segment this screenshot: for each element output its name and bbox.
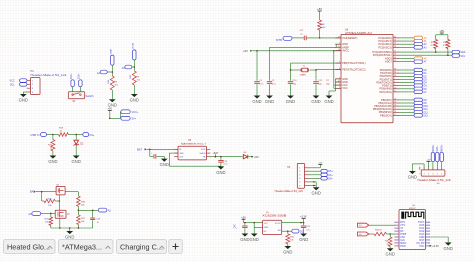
resistor R30 1k (RX pulldown) xyxy=(385,234,392,248)
svg-text:PC5(ADC5/SCL): PC5(ADC5/SCL) xyxy=(373,53,392,57)
ground below C25 xyxy=(299,234,308,242)
svg-text:19: 19 xyxy=(394,57,396,59)
svg-text:GND: GND xyxy=(48,159,57,164)
svg-text:8: 8 xyxy=(339,68,340,70)
junction C14 node xyxy=(220,156,222,158)
net label D11 (PB3) xyxy=(399,107,429,111)
svg-text:22: 22 xyxy=(394,60,396,62)
output capacitor C14 4.7u xyxy=(218,157,228,167)
net label A4 xyxy=(97,70,112,75)
diode D4 (series, output) xyxy=(243,152,251,159)
svg-text:GND: GND xyxy=(216,170,225,175)
svg-text:ADC7: ADC7 xyxy=(385,60,392,64)
net label MOSI (vertical) xyxy=(440,144,444,162)
svg-text:3: 3 xyxy=(299,175,300,177)
svg-text:+5V: +5V xyxy=(254,155,259,159)
svg-text:D10+: D10+ xyxy=(71,73,73,79)
net label D13 (PB5) xyxy=(399,114,429,118)
svg-text:32: 32 xyxy=(394,75,396,77)
junction VCC drop xyxy=(333,50,335,52)
svg-text:5: 5 xyxy=(339,77,340,79)
svg-text:10: 10 xyxy=(394,87,396,89)
svg-text:17: 17 xyxy=(394,114,396,116)
tab Heated Glo... xyxy=(4,240,56,254)
net label D4 (switch right, vertical) xyxy=(79,73,83,87)
capacitor C2 22p label xyxy=(326,80,330,85)
junction SCL-R16 xyxy=(447,54,449,56)
ground below U3 GND xyxy=(250,234,259,242)
svg-text:GND: GND xyxy=(250,237,259,242)
ground below R30 xyxy=(386,248,395,256)
svg-text:4: 4 xyxy=(299,178,300,180)
svg-text:D/TR: D/TR xyxy=(276,38,282,42)
resistor R21 10k (EN pulldown) xyxy=(286,231,295,246)
svg-text:D12: D12 xyxy=(424,112,429,114)
wire R24 to ground xyxy=(111,90,113,99)
power flag +5V (feeds VCC+/5V+ labels) xyxy=(108,108,113,119)
net label D5+ xyxy=(321,170,333,174)
net label VBAT (vertical, top of A4 divider) xyxy=(110,48,114,65)
net label A2 (divider) xyxy=(98,208,111,212)
svg-text:7: 7 xyxy=(339,62,340,64)
net label A7 (ADC7) xyxy=(399,60,428,64)
wire mid to A2 label xyxy=(78,210,98,212)
svg-text:SCL: SCL xyxy=(10,83,15,86)
net label BAT (load switch) xyxy=(30,191,36,194)
transistor Q2 (N-MOSFET) xyxy=(55,210,70,218)
wire U6 GND pin xyxy=(169,153,178,166)
svg-text:SDA: SDA xyxy=(460,51,465,54)
svg-text:5: 5 xyxy=(299,182,300,184)
net label A3 (gate input) xyxy=(28,212,40,216)
svg-text:GND: GND xyxy=(252,99,261,104)
power flag +3.3V (ESP VCC) xyxy=(430,245,439,248)
svg-text:MOSI+: MOSI+ xyxy=(442,144,444,152)
svg-text:GND: GND xyxy=(386,252,395,257)
crystal Y1 16MHz xyxy=(291,65,317,76)
node A4 junction xyxy=(112,71,114,73)
wire A3 to Q2 gate xyxy=(41,213,55,215)
svg-text:+5V: +5V xyxy=(108,108,113,111)
svg-text:GND: GND xyxy=(299,237,308,242)
net label A3 (PC3) xyxy=(399,46,428,50)
svg-text:GND: GND xyxy=(286,99,295,104)
wire VUSB down xyxy=(133,60,135,71)
ground below C11 xyxy=(311,96,320,104)
ground below D2 xyxy=(72,156,81,164)
net label SCL xyxy=(452,54,466,58)
ground below C5 xyxy=(265,96,274,104)
svg-text:30: 30 xyxy=(394,69,396,71)
wire switch left xyxy=(72,87,74,92)
wire U6 OUT to diode xyxy=(210,156,243,158)
wire R19 to D1+ xyxy=(68,134,83,136)
svg-text:*ATMega3...: *ATMega3... xyxy=(62,243,102,252)
svg-text:VCC+: VCC+ xyxy=(132,111,139,114)
ground below R21 xyxy=(283,246,292,254)
svg-text:28: 28 xyxy=(394,54,396,56)
junction crystal-right xyxy=(315,69,317,71)
svg-text:31: 31 xyxy=(394,72,396,74)
svg-text:GND: GND xyxy=(65,234,74,239)
svg-text:3: 3 xyxy=(32,88,33,90)
svg-text:5V+: 5V+ xyxy=(132,118,137,121)
svg-text:4.7u: 4.7u xyxy=(259,83,263,85)
svg-text:GND: GND xyxy=(311,99,320,104)
svg-text:+3.3V: +3.3V xyxy=(300,216,307,219)
svg-text:24: 24 xyxy=(394,40,396,42)
svg-text:D16+: D16+ xyxy=(79,73,81,79)
net label D10 (PB2) xyxy=(399,104,429,108)
ground rail (load switch) xyxy=(51,227,93,229)
wire pullup top bar xyxy=(436,34,448,36)
junction BAT node xyxy=(149,149,151,151)
net label D1+ xyxy=(83,133,95,138)
wire H1 pin6 xyxy=(441,162,443,167)
wire Q1 to Q2 xyxy=(58,195,60,210)
wire VBAT down xyxy=(111,65,113,76)
svg-text:GND: GND xyxy=(444,246,453,251)
ground below rail xyxy=(65,228,74,239)
svg-text:GND: GND xyxy=(283,249,292,254)
svg-text:POK: POK xyxy=(201,149,206,151)
wire H1 pin2 to ground xyxy=(412,164,424,171)
net label D6+ xyxy=(321,173,333,177)
svg-text:GND: GND xyxy=(179,153,184,155)
svg-text:PC6(RESET): PC6(RESET) xyxy=(342,36,357,40)
wire U3 GND pin to ground xyxy=(254,223,262,234)
regulator U6 MAX8881EUT50+T xyxy=(174,139,210,160)
junction SDA-R15 xyxy=(435,51,437,53)
svg-text:D10: D10 xyxy=(424,106,429,108)
svg-text:2: 2 xyxy=(394,81,395,83)
connector H1 Header-Male-2.54_1x6 (horizontal) xyxy=(418,167,452,186)
ground below C4 xyxy=(252,96,261,104)
net label MISO (vertical) xyxy=(431,144,435,162)
wire ESP GND xyxy=(430,237,449,243)
svg-text:6: 6 xyxy=(299,185,300,187)
svg-text:GND: GND xyxy=(160,162,169,167)
net label SDA xyxy=(452,50,466,54)
svg-text:R33 1k: R33 1k xyxy=(375,229,383,231)
regulator U3 XC6206-330B xyxy=(262,212,287,234)
net label D9 (PB1) xyxy=(399,101,428,105)
svg-text:ATMEGA328P-AU: ATMEGA328P-AU xyxy=(345,32,372,35)
wire +5V to labels xyxy=(109,112,120,119)
wire +5V rail to AVCC xyxy=(252,50,341,52)
wire R17 to rail xyxy=(77,225,79,229)
svg-text:26: 26 xyxy=(394,46,396,48)
wire switch right xyxy=(79,87,81,92)
svg-text:5: 5 xyxy=(437,173,438,175)
wire R33 to ESP xyxy=(386,233,394,235)
svg-text:Header-Male-2.54_1x6: Header-Male-2.54_1x6 xyxy=(275,190,304,193)
svg-text:2: 2 xyxy=(424,173,425,175)
svg-text:14: 14 xyxy=(394,105,396,107)
wire H1 pin5 xyxy=(436,162,438,167)
wire H2 pin2 xyxy=(309,170,321,172)
junction U3 gnd drop xyxy=(253,222,255,224)
net label A2 (PC2) xyxy=(399,42,428,46)
svg-text:PB5(SCK): PB5(SCK) xyxy=(380,113,392,117)
net label D8 (PB0) xyxy=(399,98,428,102)
net label 5V+ xyxy=(121,116,137,120)
net label A5 xyxy=(122,65,135,70)
svg-text:27: 27 xyxy=(394,51,396,53)
svg-text:BAT: BAT xyxy=(137,147,142,151)
svg-text:SHDN: SHDN xyxy=(200,153,206,155)
svg-text:D5+: D5+ xyxy=(328,170,333,173)
ground at U6 input xyxy=(160,159,169,167)
svg-text:4: 4 xyxy=(32,92,33,94)
svg-text:23: 23 xyxy=(394,36,396,38)
wire H1 pin4 xyxy=(432,162,434,167)
net flag +BAT xyxy=(213,152,219,157)
transistor Q1 (P-MOSFET) xyxy=(56,185,65,195)
net label A6 (ADC6) xyxy=(399,57,428,61)
svg-text:GND: GND xyxy=(130,97,139,102)
wire SDA xyxy=(399,51,453,53)
net label A1 (PC1) xyxy=(399,39,428,43)
microcontroller U5 ATMEGA328P-AU xyxy=(335,29,399,123)
wire H2 pin4 xyxy=(309,177,321,179)
resistor R15 4.7k xyxy=(431,35,438,52)
net label D/TR xyxy=(276,36,292,42)
svg-text:AVCC: AVCC xyxy=(342,48,349,52)
resistor R29 10k (gate pulldown) xyxy=(45,213,53,228)
svg-text:29: 29 xyxy=(338,36,340,38)
ground below H2 xyxy=(312,187,321,195)
resistor R17 20k (divider bottom) xyxy=(77,215,86,225)
resistor R26 10k (gate pullup) xyxy=(42,192,56,207)
wire VCC drop vertical xyxy=(334,51,341,89)
tab Charging C... xyxy=(117,240,167,254)
resistor R16 4.7k xyxy=(443,35,450,55)
svg-text:GND: GND xyxy=(240,237,249,242)
resistor R33 1k (series RX) xyxy=(374,229,386,235)
svg-text:D1+: D1+ xyxy=(90,134,95,137)
svg-text:1: 1 xyxy=(419,173,420,175)
wire AREF rail xyxy=(270,44,342,47)
svg-text:3: 3 xyxy=(428,173,429,175)
junction C4 column xyxy=(256,50,258,52)
svg-text:21: 21 xyxy=(338,81,340,83)
net label D7 (PD7) xyxy=(399,90,428,94)
port flag ESP CTS (arrow) xyxy=(358,223,369,227)
net label D4 (PD4) xyxy=(399,81,428,85)
power flag +5V (H1 pin3) xyxy=(427,160,432,168)
wire XTAL1 to C10 xyxy=(291,62,342,64)
net label SCL (H3 pin2) xyxy=(10,83,27,87)
svg-text:18: 18 xyxy=(338,49,340,51)
capacitor C11 22p xyxy=(313,69,322,95)
svg-text:MAX8881EUT50+T: MAX8881EUT50+T xyxy=(181,143,207,146)
power flag +5V (I2C pullups) xyxy=(440,30,445,35)
wire loop under U6 (FB) xyxy=(169,165,221,167)
power flag +3.3V xyxy=(300,216,307,223)
svg-text:OUT: OUT xyxy=(179,157,184,159)
capacitor C10 22p xyxy=(288,63,298,95)
svg-text:D13: D13 xyxy=(424,115,429,117)
svg-text:Heated Glo...: Heated Glo... xyxy=(7,243,50,252)
svg-text:VCC: VCC xyxy=(342,86,348,90)
wire CTS to ESP xyxy=(369,224,395,226)
svg-text:1: 1 xyxy=(299,168,300,170)
svg-text:6: 6 xyxy=(441,173,442,175)
svg-text:1: 1 xyxy=(32,80,33,82)
svg-text:16MHz: 16MHz xyxy=(300,74,307,76)
capacitor C26 1u xyxy=(90,210,101,228)
svg-text:GND: GND xyxy=(19,97,28,102)
svg-text:13: 13 xyxy=(394,102,396,104)
resistor R36 62k (divider top) xyxy=(77,196,86,206)
ground below H3 xyxy=(19,94,28,102)
wire SCL xyxy=(399,54,453,56)
ground right of ESP xyxy=(444,243,453,251)
svg-text:Header-Male-2.54_1x4: Header-Male-2.54_1x4 xyxy=(31,74,68,77)
zener diode D2 xyxy=(74,135,84,156)
svg-text:SCK+: SCK+ xyxy=(437,145,439,152)
svg-text:NC: NC xyxy=(264,231,268,233)
ground below R25 xyxy=(130,94,139,102)
power flag +5V (main rail) xyxy=(243,49,252,53)
svg-text:D9+: D9+ xyxy=(328,177,333,180)
net label D1 (PD1) xyxy=(399,71,428,75)
svg-text:PB6(XTAL1/TOSC1): PB6(XTAL1/TOSC1) xyxy=(342,61,365,65)
svg-text:Switch: Switch xyxy=(86,94,94,98)
svg-text:VUSB: VUSB xyxy=(133,43,135,49)
power flag +5V (H2) xyxy=(318,163,323,165)
tab *ATMega3... (active) xyxy=(59,240,114,254)
wire USB Tx to R19 xyxy=(47,134,59,136)
net label A0 (PC0) xyxy=(399,36,428,40)
svg-text:GND: GND xyxy=(265,99,274,104)
capacitor C17 1u (reset series) xyxy=(292,30,341,40)
svg-text:4: 4 xyxy=(339,84,340,86)
ground below R20 xyxy=(48,156,57,164)
junction crystal-left xyxy=(290,69,292,71)
svg-text:1: 1 xyxy=(394,78,395,80)
junction at D2 top xyxy=(75,134,77,136)
resistor R20 1k (to ground) xyxy=(48,135,55,152)
wire +5V to U3 VCC xyxy=(244,222,263,224)
svg-text:D11: D11 xyxy=(424,109,429,111)
resistor R24 1M xyxy=(108,76,118,90)
svg-text:9: 9 xyxy=(394,84,395,86)
input capacitor C15 1u xyxy=(150,149,165,158)
net label VCC (H3 pin1) xyxy=(10,79,27,83)
svg-text:XC6206-330B: XC6206-330B xyxy=(262,215,287,217)
svg-text:+5V: +5V xyxy=(241,216,246,219)
wire Q1 out xyxy=(65,192,78,196)
wire C15 to ground xyxy=(163,156,165,158)
junction C25 node xyxy=(300,222,304,224)
svg-text:GND: GND xyxy=(264,227,269,229)
wire BAT to U6 IN xyxy=(147,148,178,150)
svg-text:USB Tx: USB Tx xyxy=(30,133,40,137)
capacitor C23 (U3 input) xyxy=(242,223,247,234)
svg-text:GND: GND xyxy=(408,174,417,179)
net label D6 (PD6) xyxy=(399,87,428,91)
net label VCC+ xyxy=(121,110,139,114)
power flag +5V (U3 input) xyxy=(241,216,246,222)
svg-text:10k: 10k xyxy=(115,85,118,87)
svg-text:GND: GND xyxy=(72,159,81,164)
port flag ESP RX (arrow) xyxy=(358,232,369,236)
capacitor C5 4.7u xyxy=(267,47,276,95)
svg-text:SCL: SCL xyxy=(460,55,465,58)
cursor mark xyxy=(233,224,236,229)
svg-text:2: 2 xyxy=(299,171,300,173)
svg-text:PD7(AIN1): PD7(AIN1) xyxy=(379,90,391,94)
svg-text:VCC: VCC xyxy=(10,80,15,83)
wire U3 VOUT to +3.3V xyxy=(282,222,304,224)
wire IC GND pins to ground xyxy=(329,79,341,96)
net label USB Tx xyxy=(30,133,46,137)
wire BAT to Q1 xyxy=(36,191,56,193)
svg-text:DC: DC xyxy=(300,230,304,233)
resistor R19 1k (series) xyxy=(59,128,69,137)
wire Q2 source to rail xyxy=(59,218,61,228)
svg-text:6: 6 xyxy=(339,87,340,89)
svg-text:3: 3 xyxy=(339,43,340,45)
svg-text:Charging C...: Charging C... xyxy=(120,243,163,252)
svg-text:VCC: VCC xyxy=(264,223,269,225)
wire H2 pin3 xyxy=(309,174,321,176)
wire U3 EN xyxy=(282,230,292,232)
svg-text:ESP07: ESP07 xyxy=(409,208,416,210)
svg-text:+5V: +5V xyxy=(317,7,322,11)
svg-text:VCC: VCC xyxy=(419,245,424,248)
svg-text:10k: 10k xyxy=(137,80,140,82)
net label D5 (PD5) xyxy=(399,84,428,88)
ground below C23 xyxy=(240,234,249,242)
node A5 junction xyxy=(134,66,136,68)
svg-text:11: 11 xyxy=(394,90,396,92)
button add sheet (+) xyxy=(169,240,183,254)
net label VUSB (vertical, top of A5 divider) xyxy=(133,43,136,60)
svg-text:+3.3V: +3.3V xyxy=(432,245,439,248)
power flag +5V (reset pullup) xyxy=(317,7,322,20)
junction at R20 top xyxy=(52,134,54,136)
junction +BAT node xyxy=(215,156,217,158)
ground below C14 xyxy=(216,166,225,175)
svg-text:Header-Male-2.54_1x6: Header-Male-2.54_1x6 xyxy=(418,179,452,182)
ground below IC GND pins xyxy=(324,96,333,104)
net label D2 (switch left, vertical) xyxy=(71,73,75,87)
svg-text:+5V: +5V xyxy=(243,49,248,53)
capacitor C25 4.7u xyxy=(301,223,311,234)
net label D2 (PD2) xyxy=(399,75,428,79)
wire H2 pins 5-6 to ground xyxy=(309,181,317,187)
svg-text:PC3(ADC3): PC3(ADC3) xyxy=(378,45,392,49)
connector H3 Header-Male-2.54_1x4 xyxy=(27,70,68,95)
net label D9+ xyxy=(321,177,333,181)
net label DC (EN) xyxy=(292,229,304,233)
net label BAT (input) xyxy=(137,147,147,151)
net label SCK (vertical) xyxy=(436,145,440,162)
svg-text:VBAT: VBAT xyxy=(110,48,113,54)
svg-text:GND: GND xyxy=(312,191,321,196)
wire R25 to ground xyxy=(133,85,135,94)
svg-text:GND: GND xyxy=(324,99,333,104)
svg-text:VOUT: VOUT xyxy=(275,223,282,225)
svg-text:4.7u: 4.7u xyxy=(272,83,276,85)
wire H2 pin1 to +5V xyxy=(309,165,321,168)
resistor R25 1M xyxy=(130,71,140,85)
ground left of H1 xyxy=(408,171,417,179)
capacitor C4 4.7u xyxy=(254,51,263,96)
